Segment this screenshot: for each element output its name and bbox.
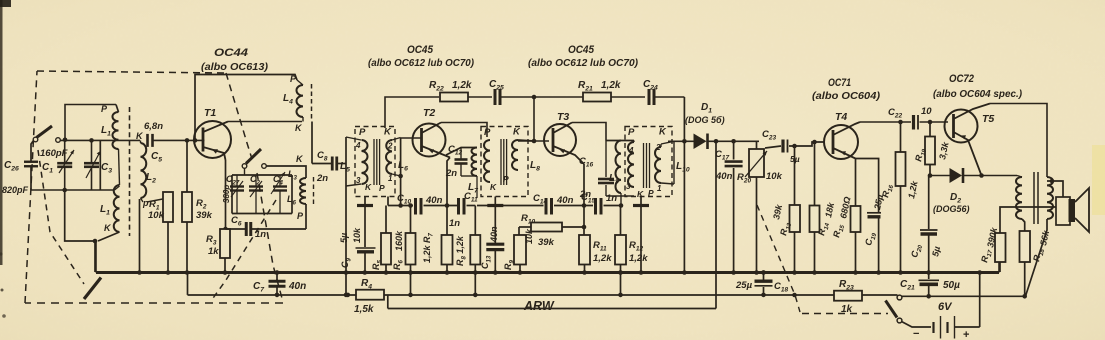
svg-text:2n: 2n <box>316 173 328 184</box>
IFT1 core <box>374 139 380 185</box>
resistor R16 <box>880 122 920 272</box>
resistor R5 <box>352 206 391 273</box>
svg-text:K: K <box>365 182 372 192</box>
svg-text:40n: 40n <box>425 195 443 206</box>
switch S1 band switch <box>33 126 60 142</box>
resistor R6 <box>392 203 416 272</box>
svg-text:5µ: 5µ <box>339 233 349 243</box>
main bus <box>96 271 999 274</box>
tank top rail <box>65 105 116 140</box>
resistor R4 <box>346 278 385 315</box>
output transformer primary <box>1016 176 1025 223</box>
resistor R15 <box>831 159 860 273</box>
transistor T1 <box>194 121 231 160</box>
capacitor C19 electrolytic <box>856 159 886 273</box>
svg-text:(albo OC604 spec.): (albo OC604 spec.) <box>933 89 1023 100</box>
svg-text:T5: T5 <box>982 113 994 125</box>
antenna coil L1 lower winding <box>98 149 120 241</box>
IFT2 core <box>501 139 507 185</box>
resistor R19 <box>913 122 951 178</box>
svg-text:1,5k: 1,5k <box>354 304 374 315</box>
ferrite core dashed <box>129 107 131 236</box>
transistor T4 <box>824 122 860 159</box>
dark scan edge left <box>0 0 3 265</box>
wire tank to bus <box>65 190 95 272</box>
capacitor C23 electrolytic <box>762 129 825 164</box>
IFT3 primary winding <box>626 141 634 192</box>
scan specks <box>1 289 4 292</box>
capacitor C16 <box>579 141 634 201</box>
resistor R13 <box>771 144 800 272</box>
wire T1 collector to L4 <box>228 121 302 123</box>
rail junction to T3 base <box>518 95 549 144</box>
IFT1 primary winding <box>346 137 368 186</box>
svg-text:6V: 6V <box>938 301 953 313</box>
coupling coil L2 <box>136 131 156 208</box>
svg-text:380p: 380p <box>222 185 231 203</box>
svg-text:1k: 1k <box>208 246 219 257</box>
capacitor C17 <box>715 139 743 272</box>
svg-text:4: 4 <box>355 141 361 150</box>
svg-text:1k: 1k <box>841 304 853 315</box>
capacitor C10 <box>388 193 457 215</box>
output transformer secondary <box>1047 177 1053 219</box>
capacitor C12 <box>445 144 477 179</box>
wire IFT1 secondary to C10 <box>398 138 403 208</box>
capacitor C21 electrolytic <box>900 273 960 297</box>
svg-text:40n: 40n <box>715 171 733 182</box>
tank box right edge <box>99 140 101 190</box>
dashed tuner module outline <box>25 71 283 303</box>
svg-text:OC45: OC45 <box>568 44 595 56</box>
resistor R14 <box>810 140 837 272</box>
transistor T2 <box>413 123 451 158</box>
resistor R1 <box>148 192 173 272</box>
resistor R12 <box>615 206 648 298</box>
diode D1 <box>668 134 759 150</box>
svg-text:−: − <box>913 328 919 340</box>
dashed linkage pot to power switch <box>757 205 888 314</box>
svg-text:(DOG 5б): (DOG 5б) <box>685 115 725 125</box>
yellow highlight right edge <box>1092 145 1105 215</box>
resistor R2 <box>182 140 213 272</box>
svg-text:T3: T3 <box>557 111 569 123</box>
svg-text:ARW: ARW <box>523 299 555 313</box>
dashed linkage S2 down-left <box>211 200 276 301</box>
coupling coil L7 <box>468 148 479 199</box>
svg-text:P: P <box>628 127 635 138</box>
capacitor C22 <box>888 106 948 130</box>
svg-text:160k: 160k <box>394 230 404 251</box>
transistor T1 emitter to R3 <box>225 160 227 228</box>
switch S2 oscillator band switch <box>242 149 266 175</box>
svg-text:40n: 40n <box>489 226 499 243</box>
wire bus left riser <box>95 241 97 273</box>
svg-text:1,2k: 1,2k <box>452 80 472 91</box>
wire base T2 <box>401 137 422 139</box>
svg-text:(albo OC612 lub OC70): (albo OC612 lub OC70) <box>528 58 639 69</box>
svg-text:10k: 10k <box>148 210 165 221</box>
svg-text:P: P <box>503 174 509 184</box>
resistor R17 <box>979 226 1005 272</box>
wire C5 to T1 base <box>153 139 205 141</box>
variable capacitor C3 <box>84 141 112 190</box>
svg-text:OC71: OC71 <box>828 77 851 89</box>
wire T2 emitter down <box>445 158 450 236</box>
svg-text:39k: 39k <box>538 237 555 248</box>
IFT3 core <box>644 143 650 188</box>
svg-text:OC45: OC45 <box>407 44 434 56</box>
capacitor C11 <box>449 191 478 229</box>
svg-text:T4: T4 <box>835 111 847 123</box>
svg-text:+: + <box>963 329 969 340</box>
core dashes L6 <box>313 177 315 205</box>
resistor R8 <box>455 206 480 273</box>
svg-text:10k: 10k <box>766 171 783 182</box>
resistor R11 <box>579 235 612 272</box>
capacitor C7 <box>253 273 306 298</box>
resistor R7 <box>422 232 453 272</box>
capacitor C9 electrolytic <box>339 207 376 272</box>
svg-text:K: K <box>384 127 392 138</box>
svg-text:K: K <box>490 182 497 192</box>
wire C26 to tank bottom rail <box>30 167 32 191</box>
oscillator feedback wire <box>195 75 297 141</box>
svg-text:40n: 40n <box>556 195 574 206</box>
resistor R22 <box>429 80 492 102</box>
resistor R23 <box>834 279 862 315</box>
svg-text:5µ: 5µ <box>930 245 942 257</box>
resistor R21 <box>534 80 645 102</box>
svg-text:1: 1 <box>388 174 393 183</box>
ARW feedback line <box>388 295 716 309</box>
IFT1 secondary winding <box>386 138 401 184</box>
svg-text:1,2k: 1,2k <box>601 80 621 91</box>
resistor R10 <box>519 213 586 248</box>
resistor R18 <box>1020 219 1052 299</box>
capacitor C14 <box>477 193 593 215</box>
rail wire K to R22 <box>385 97 439 128</box>
svg-text:K: K <box>513 127 521 138</box>
capacitor C13 <box>480 207 504 272</box>
oscillator trimmer box <box>232 175 292 214</box>
svg-text:T2: T2 <box>423 107 435 119</box>
variable capacitor C1 <box>42 141 74 190</box>
svg-text:(albo OC604): (albo OC604) <box>812 91 881 102</box>
IF transformer L9/L10 shield box <box>625 127 672 197</box>
svg-text:2: 2 <box>387 142 393 151</box>
wire T4 collector rail <box>860 120 911 125</box>
IFT3 secondary winding <box>655 141 674 193</box>
battery <box>902 316 980 340</box>
capacitor C15 <box>581 192 621 215</box>
IFT1 shield ground bar <box>357 197 373 206</box>
wire L2 cold end to bus <box>139 199 141 273</box>
svg-text:P: P <box>379 183 385 193</box>
diode D2 <box>930 168 1017 214</box>
svg-text:(albo OC613): (albo OC613) <box>201 62 269 73</box>
dashed linkage S1 to antenna switch <box>38 150 84 284</box>
speaker <box>1047 179 1089 232</box>
transistor T3 <box>544 123 584 165</box>
output transformer core <box>1034 172 1038 224</box>
wire bus to mid at R8 column <box>474 273 476 295</box>
bus junction dots <box>137 270 982 275</box>
svg-text:820pF: 820pF <box>2 185 29 195</box>
coupling coil L9 <box>606 141 634 208</box>
svg-text:2n: 2n <box>445 168 457 179</box>
wire R17 to speaker <box>1000 207 1056 233</box>
capacitor C20 electrolytic <box>909 176 942 273</box>
trimmer C2 <box>249 174 263 214</box>
svg-text:160pF: 160pF <box>40 148 68 159</box>
wire secondary to battery junction <box>1026 219 1047 296</box>
IF transformer L7/L8 shield box <box>481 127 528 197</box>
svg-text:(DOG56): (DOG56) <box>933 204 970 214</box>
wire T3 collector to IFT3 <box>572 123 606 141</box>
svg-text:OC72: OC72 <box>949 73 974 85</box>
wire rail drop to detector <box>682 97 687 272</box>
svg-text:2: 2 <box>655 143 661 152</box>
svg-text:1n: 1n <box>606 193 617 204</box>
core dashes L4 <box>311 84 313 119</box>
svg-text:3: 3 <box>356 176 361 185</box>
svg-text:50µ: 50µ <box>943 280 960 291</box>
IF transformer L5/L6 shield box <box>355 127 395 197</box>
wire S1 to C26 <box>31 141 34 162</box>
svg-text:6,8n: 6,8n <box>144 121 163 132</box>
capacitor C25 <box>489 79 534 105</box>
capacitor C24 <box>643 79 684 105</box>
wire T5 collector to output transformer <box>990 104 1047 178</box>
IFT2 shield ground bar <box>487 197 503 206</box>
transistor T5 <box>945 104 991 176</box>
power switch <box>886 295 902 323</box>
wire T3 emitter to R11 <box>582 164 587 235</box>
battery supply line <box>902 294 1025 299</box>
svg-text:1n: 1n <box>449 218 460 229</box>
antenna coil L1 upper winding <box>112 105 118 150</box>
capacitor C5 <box>144 121 163 164</box>
svg-text:1n: 1n <box>255 229 266 240</box>
trimmer C27 <box>222 174 244 214</box>
svg-text:4: 4 <box>628 146 634 155</box>
wire battery to bus <box>979 273 981 328</box>
mid return line <box>188 273 898 296</box>
wire T2 collector to IFT2 <box>441 123 487 138</box>
svg-text:p: p <box>142 198 149 208</box>
svg-text:1,2k: 1,2k <box>593 253 612 264</box>
svg-text:1,2k: 1,2k <box>629 253 648 264</box>
svg-text:P: P <box>648 188 654 198</box>
svg-text:P: P <box>484 127 491 138</box>
svg-text:39k: 39k <box>196 210 213 221</box>
svg-text:(albo OC612 lub OC70): (albo OC612 lub OC70) <box>368 58 475 69</box>
svg-text:1: 1 <box>657 184 662 193</box>
node IFT1 left link <box>345 137 347 295</box>
variable capacitor C4 <box>271 172 287 214</box>
svg-text:3: 3 <box>626 182 631 191</box>
wire L2 tap to R1 <box>147 192 168 202</box>
coil L4 <box>283 74 303 133</box>
svg-text:K: K <box>659 127 667 138</box>
antenna earth switch <box>84 278 101 300</box>
svg-text:P: P <box>101 104 108 114</box>
potentiometer R20 volume <box>737 141 783 272</box>
svg-text:10k: 10k <box>352 227 362 243</box>
node AGC takeoff <box>714 139 719 309</box>
wire S2 to oscillator coil <box>266 166 306 178</box>
svg-text:P: P <box>290 74 297 84</box>
capacitor C8 <box>312 122 346 185</box>
IFT2 secondary winding <box>512 140 534 170</box>
wire IFT1 P pin to divider <box>387 197 389 206</box>
resistor R3 <box>206 229 230 272</box>
svg-text:40n: 40n <box>288 281 306 292</box>
svg-text:T1: T1 <box>204 107 216 119</box>
antenna coil labels <box>100 104 112 233</box>
resistor R9 <box>503 227 534 272</box>
switch wire to K <box>60 139 140 141</box>
oscillator coil L6 <box>287 169 306 229</box>
svg-text:P: P <box>297 211 304 221</box>
IFT2 primary winding <box>484 140 490 182</box>
svg-text:10: 10 <box>921 106 932 117</box>
svg-text:P: P <box>359 127 366 138</box>
IFT3 shield ground bar <box>633 197 649 273</box>
capacitor C26 <box>2 160 38 195</box>
wire bus to mid at R6 column <box>410 273 412 295</box>
wire R17 bus end <box>998 262 1000 273</box>
svg-text:25µ: 25µ <box>735 280 753 291</box>
tank bottom rail <box>31 189 115 191</box>
svg-text:OC44: OC44 <box>214 47 248 59</box>
capacitor C6 1n <box>226 215 307 240</box>
capacitor C18 electrolytic <box>735 270 788 297</box>
